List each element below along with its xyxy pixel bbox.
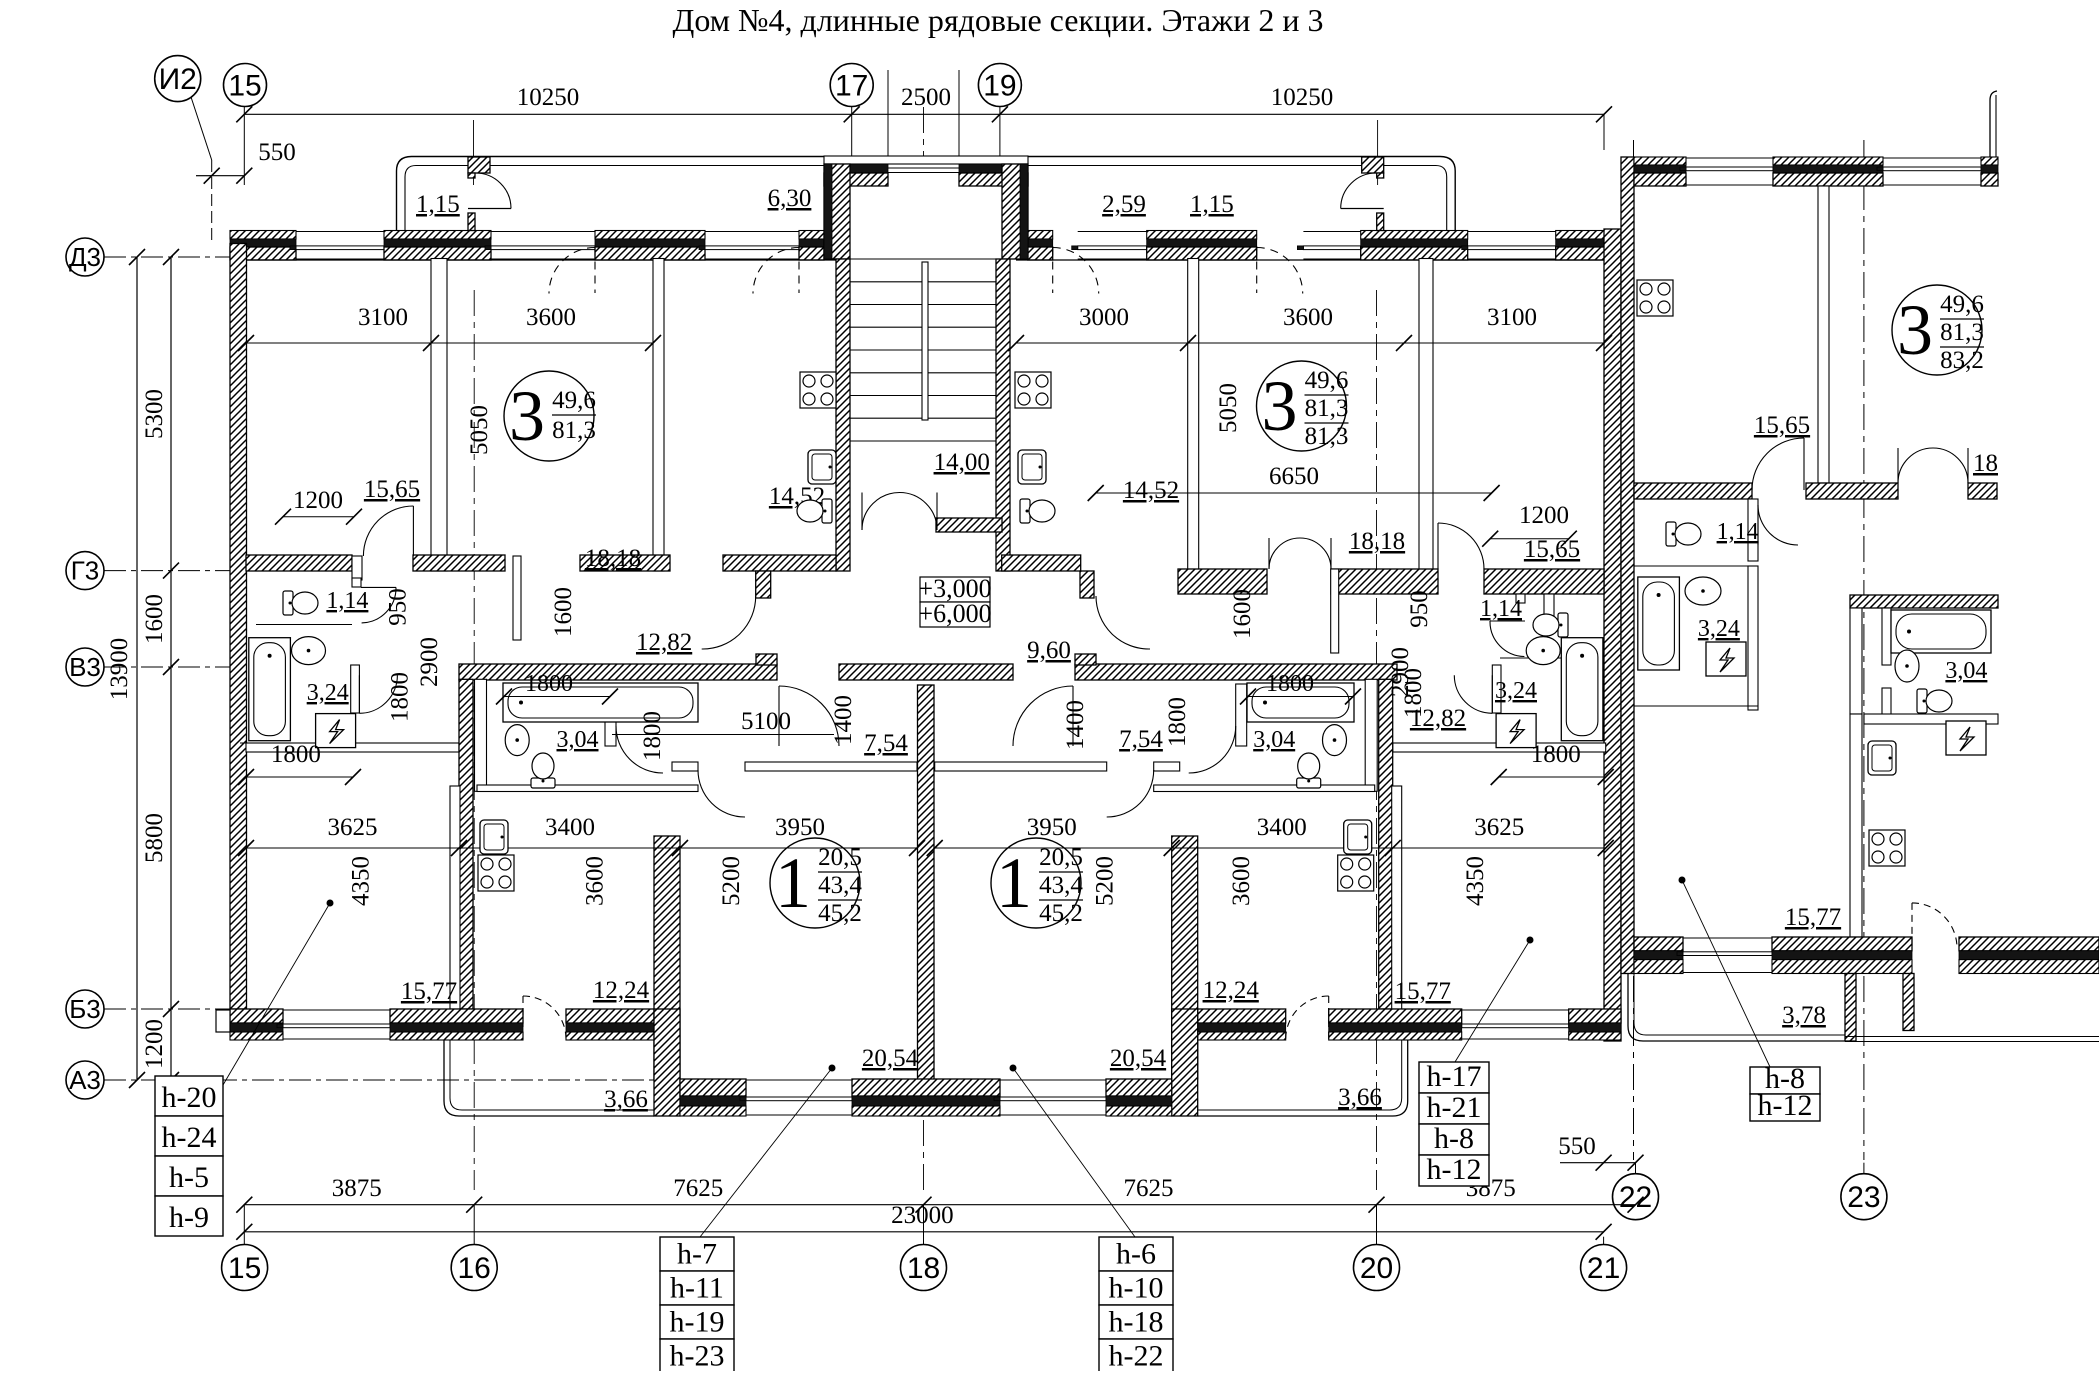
right sec pier a xyxy=(1634,157,1686,165)
right sec bottom pier b xyxy=(1772,937,1912,951)
toilet xyxy=(283,591,318,615)
svg-text:h-20: h-20 xyxy=(162,1081,217,1114)
wall pier D3 b xyxy=(384,231,491,240)
svg-text:h-11: h-11 xyxy=(670,1272,724,1305)
bath tub xyxy=(1891,610,1991,653)
kitchen sink xyxy=(480,820,508,854)
balcony door dashed arc right 1 xyxy=(1053,248,1099,294)
left exterior wall xyxy=(230,244,247,1010)
step wall left xyxy=(654,1009,680,1116)
svg-text:18: 18 xyxy=(907,1252,940,1285)
svg-text:1,14: 1,14 xyxy=(1480,596,1522,622)
double door arcs right apartment xyxy=(1269,538,1300,569)
svg-text:13900: 13900 xyxy=(106,638,133,701)
svg-text:1: 1 xyxy=(996,843,1032,923)
svg-text:3600: 3600 xyxy=(1283,304,1333,331)
B3 pier e xyxy=(1569,1009,1621,1023)
svg-text:1600: 1600 xyxy=(141,594,168,644)
svg-text:3,24: 3,24 xyxy=(307,680,349,706)
leader h-6 xyxy=(1013,1068,1135,1237)
A3 pier c xyxy=(1106,1079,1172,1096)
axis circle 17 top xyxy=(830,64,873,107)
axis dash line 18 xyxy=(923,107,925,156)
right balcony wall xyxy=(1845,974,1856,1042)
window D3 1 xyxy=(296,231,384,233)
balcony door dashed arc left 2 xyxy=(753,248,799,294)
right section door arc 15,65 xyxy=(1752,438,1804,490)
right sec bottom window 1 xyxy=(1683,937,1772,939)
svg-text:14,52: 14,52 xyxy=(1123,477,1179,504)
corridor door arc 15.65 room left xyxy=(363,506,413,556)
axis circle 15 bottom xyxy=(222,1245,268,1291)
G3 wall segment xyxy=(246,555,352,571)
svg-text:19: 19 xyxy=(983,70,1016,103)
stair landing wall piece xyxy=(936,518,1002,532)
axis circle 19 top xyxy=(978,64,1021,107)
svg-text:3,04: 3,04 xyxy=(1253,727,1295,753)
svg-text:81,3: 81,3 xyxy=(1305,423,1349,450)
wall pier D3 a xyxy=(230,231,296,240)
bath door arc right xyxy=(1454,675,1492,713)
svg-text:12,24: 12,24 xyxy=(1203,977,1260,1004)
svg-text:3600: 3600 xyxy=(1228,856,1255,906)
apartment circle 1 right xyxy=(991,838,1081,928)
G3 wall right b xyxy=(1331,569,1438,594)
G3 wall segment xyxy=(580,555,670,571)
bottom dim 23000 xyxy=(244,1231,1603,1233)
svg-text:22: 22 xyxy=(1619,1181,1652,1214)
wall x450-460 thin xyxy=(450,786,460,1009)
svg-text:1800: 1800 xyxy=(1400,668,1427,718)
WC right walls (mirror) xyxy=(1544,594,1554,620)
stove xyxy=(1015,372,1051,408)
svg-text:43,4: 43,4 xyxy=(1039,872,1083,899)
svg-text:18,18: 18,18 xyxy=(585,545,641,572)
balcony rail right top xyxy=(1028,157,1456,231)
wall slat below G3 left xyxy=(513,556,521,640)
svg-text:5800: 5800 xyxy=(141,813,168,863)
right section bath xyxy=(1748,566,1758,710)
B3 pier f xyxy=(1329,1009,1462,1023)
V3 wall segment xyxy=(839,664,1013,680)
svg-text:h-9: h-9 xyxy=(169,1201,209,1234)
svg-text:18: 18 xyxy=(1973,450,1998,477)
right sec window 1 xyxy=(1686,157,1773,159)
table h-20 xyxy=(155,1076,223,1116)
window D3 2 + balcony door xyxy=(491,231,595,233)
apartment circle 3 right xyxy=(1257,361,1347,451)
svg-text:3: 3 xyxy=(1262,366,1298,446)
svg-text:43,4: 43,4 xyxy=(818,872,862,899)
toilet xyxy=(1020,499,1055,523)
stove xyxy=(478,855,514,891)
left dim chain 13900 xyxy=(136,257,138,1080)
corridor door arc right WC xyxy=(1490,620,1525,622)
axis16 extension line top xyxy=(473,120,475,185)
svg-text:1800: 1800 xyxy=(271,741,321,768)
bottom dim 3875/7625/7625/3875 xyxy=(244,1204,1635,1206)
toilet xyxy=(1297,753,1321,788)
wall pier D3 h xyxy=(1556,231,1622,240)
svg-text:h-22: h-22 xyxy=(1109,1340,1164,1371)
svg-text:14,00: 14,00 xyxy=(934,449,990,476)
B3 corner step xyxy=(216,1010,230,1032)
water heater xyxy=(1496,714,1536,748)
A3 pier b xyxy=(852,1079,1000,1096)
svg-text:1200: 1200 xyxy=(141,1019,168,1069)
svg-text:83,2: 83,2 xyxy=(1940,347,1984,374)
svg-text:3625: 3625 xyxy=(328,814,378,841)
corridor arc at right stub xyxy=(1096,596,1150,649)
svg-text:1400: 1400 xyxy=(830,695,857,745)
svg-text:15,65: 15,65 xyxy=(364,476,420,503)
svg-text:3950: 3950 xyxy=(775,814,825,841)
B3 pier d xyxy=(1198,1009,1286,1023)
svg-text:3600: 3600 xyxy=(526,304,576,331)
svg-text:3400: 3400 xyxy=(545,814,595,841)
svg-text:Дом №4, длинные рядовые секции: Дом №4, длинные рядовые секции. Этажи 2 … xyxy=(673,2,1324,38)
B3 window 1 xyxy=(283,1009,390,1011)
core right: walls (mirror) xyxy=(1365,679,1377,791)
svg-text:15,77: 15,77 xyxy=(401,978,457,1005)
wall pier D3 c xyxy=(595,231,705,240)
right section inner wall x1850 down xyxy=(1850,714,1862,937)
kitchen sink xyxy=(808,450,836,484)
B3 pier a xyxy=(230,1009,283,1023)
right sec pier c xyxy=(1981,157,1998,165)
svg-text:h-6: h-6 xyxy=(1116,1238,1156,1271)
svg-text:h-12: h-12 xyxy=(1427,1153,1482,1186)
apartment circle 3 left xyxy=(504,371,594,461)
WC left walls xyxy=(352,556,362,580)
svg-text:А3: А3 xyxy=(69,1065,101,1095)
axis circle D3 xyxy=(66,238,104,276)
wall stub right of balcony xyxy=(1903,974,1914,1031)
kitchen sink xyxy=(1018,450,1046,484)
axis circle I2 xyxy=(155,56,201,102)
B3 pier c xyxy=(566,1009,654,1023)
right sec pier b xyxy=(1773,157,1883,165)
svg-text:3,78: 3,78 xyxy=(1782,1002,1826,1029)
toilet xyxy=(1666,522,1701,546)
svg-text:1800: 1800 xyxy=(387,672,414,722)
svg-text:3,66: 3,66 xyxy=(1338,1084,1382,1111)
A3 window 1 xyxy=(746,1079,852,1081)
svg-text:7625: 7625 xyxy=(673,1175,723,1202)
svg-text:17: 17 xyxy=(835,70,868,103)
axis circle G3 xyxy=(66,552,104,590)
svg-text:15,65: 15,65 xyxy=(1524,536,1580,563)
svg-text:h-18: h-18 xyxy=(1109,1306,1164,1339)
svg-text:49,6: 49,6 xyxy=(1940,291,1984,318)
svg-text:550: 550 xyxy=(258,139,296,166)
svg-text:Б3: Б3 xyxy=(69,994,101,1024)
svg-text:В3: В3 xyxy=(69,652,101,682)
svg-text:49,6: 49,6 xyxy=(552,387,596,414)
dim 550 top-left xyxy=(212,175,245,177)
balcony rail left top xyxy=(397,157,825,231)
plus level box xyxy=(920,577,990,602)
svg-text:1200: 1200 xyxy=(1519,502,1569,529)
svg-text:15,77: 15,77 xyxy=(1395,978,1451,1005)
A3 pier a xyxy=(680,1079,746,1096)
svg-text:3: 3 xyxy=(1897,290,1933,370)
stair tower left wall xyxy=(824,164,850,259)
svg-text:3,24: 3,24 xyxy=(1698,616,1740,642)
svg-text:3,66: 3,66 xyxy=(604,1086,648,1113)
sink xyxy=(505,725,529,756)
svg-text:h-12: h-12 xyxy=(1758,1089,1813,1122)
stove xyxy=(800,372,836,408)
right sec bottom pier a xyxy=(1634,937,1683,951)
svg-text:Д3: Д3 xyxy=(69,242,101,272)
toilet xyxy=(797,499,832,523)
bath door arc left xyxy=(616,726,663,773)
A3 window 2 xyxy=(1000,1079,1106,1081)
stove xyxy=(1869,830,1905,866)
svg-text:15: 15 xyxy=(228,1252,261,1285)
svg-text:1600: 1600 xyxy=(550,587,577,637)
corridor arc at left stub xyxy=(702,596,756,649)
svg-text:Г3: Г3 xyxy=(71,556,100,586)
top dimension line 10250/2500/10250 xyxy=(244,113,1604,115)
svg-text:5100: 5100 xyxy=(741,708,791,735)
B3 pier b xyxy=(390,1009,523,1023)
balcony partition left (1,15) xyxy=(468,157,490,173)
svg-text:h-21: h-21 xyxy=(1427,1091,1482,1124)
svg-text:1800: 1800 xyxy=(1164,697,1191,747)
G3 wall segment xyxy=(413,555,505,571)
stair entry double door arcs xyxy=(862,493,900,531)
axis circle A3 xyxy=(66,1061,104,1099)
svg-text:5050: 5050 xyxy=(1215,383,1242,433)
axis dash line 22 xyxy=(1633,140,1635,1160)
window D3 4 xyxy=(1078,231,1147,233)
svg-text:+6,000: +6,000 xyxy=(918,599,991,628)
partition wall right x1188 (mirror x653) xyxy=(1188,259,1199,572)
balcony door B3 left dashed arc xyxy=(523,996,566,1039)
axis circle 15 top xyxy=(224,64,267,107)
V3 wall segment xyxy=(459,664,777,680)
G3 wall stub right xyxy=(1080,571,1094,598)
kitchen sink xyxy=(1868,741,1896,775)
svg-text:49,6: 49,6 xyxy=(1305,367,1349,394)
axis circle 22 xyxy=(1613,1174,1659,1220)
axis line I2 xyxy=(191,97,212,160)
table h-6 xyxy=(1099,1237,1173,1271)
partition wall right x1404 (mirror x431) xyxy=(1419,259,1433,572)
svg-text:3625: 3625 xyxy=(1474,814,1524,841)
svg-text:20: 20 xyxy=(1360,1252,1393,1285)
svg-text:81,3: 81,3 xyxy=(552,417,596,444)
svg-text:1200: 1200 xyxy=(293,487,343,514)
stair treads xyxy=(850,281,996,283)
sink xyxy=(1895,650,1919,682)
svg-text:3600: 3600 xyxy=(582,856,609,906)
svg-text:3,24: 3,24 xyxy=(1495,678,1537,704)
right section double arc xyxy=(1898,448,1933,483)
apartment circle 1 left xyxy=(770,838,860,928)
svg-text:1800: 1800 xyxy=(639,711,666,761)
svg-text:2,59: 2,59 xyxy=(1102,191,1146,218)
svg-text:3000: 3000 xyxy=(1079,304,1129,331)
svg-text:3: 3 xyxy=(509,376,545,456)
svg-text:81,3: 81,3 xyxy=(1305,395,1349,422)
toilet xyxy=(1533,613,1568,637)
right sec balcony door dashed xyxy=(1912,903,1957,948)
svg-text:12,82: 12,82 xyxy=(636,629,692,656)
door arc hall-room right xyxy=(1107,770,1154,817)
axis circle 16 bottom xyxy=(451,1245,497,1291)
G3 wall right c xyxy=(1484,569,1604,594)
svg-text:4350: 4350 xyxy=(1462,856,1489,906)
svg-text:1,14: 1,14 xyxy=(326,588,368,614)
svg-text:23000: 23000 xyxy=(891,1202,954,1229)
svg-text:3100: 3100 xyxy=(1487,304,1537,331)
axis dash line 16 xyxy=(473,290,475,1190)
thin line to edge xyxy=(1845,1036,2099,1038)
svg-text:6650: 6650 xyxy=(1269,463,1319,490)
wall mirror right kitchen/room xyxy=(1172,836,1198,1079)
axis circle 23 xyxy=(1841,1174,1887,1220)
wall pier D3 e xyxy=(1028,231,1053,240)
svg-text:1,14: 1,14 xyxy=(1717,519,1759,545)
balcony partition door arc left xyxy=(468,208,511,210)
V3 wall segment xyxy=(1075,664,1397,680)
wall pier D3 f xyxy=(1147,231,1257,240)
svg-text:3875: 3875 xyxy=(332,1175,382,1202)
svg-text:950: 950 xyxy=(385,588,412,626)
sink xyxy=(1526,637,1560,665)
axis circle B3 xyxy=(66,990,104,1028)
svg-text:15: 15 xyxy=(228,70,261,103)
axis dash line 23 xyxy=(1863,140,1865,1160)
wall slat below G3 right xyxy=(1331,569,1339,653)
bath door arc left xyxy=(359,675,397,713)
sink xyxy=(1323,725,1347,756)
axis circle V3 xyxy=(66,648,104,686)
wall x654-680 kitchen/room left xyxy=(654,836,680,1079)
left G3 stub xyxy=(756,571,771,598)
svg-text:1: 1 xyxy=(775,843,811,923)
right section bath2 xyxy=(1850,595,1998,608)
door arc left apartment entry xyxy=(779,686,839,746)
water heater xyxy=(1706,642,1746,676)
bath tub xyxy=(503,683,698,722)
toilet xyxy=(531,753,555,788)
svg-text:h-23: h-23 xyxy=(670,1340,725,1371)
step wall right xyxy=(1172,1009,1198,1116)
partition wall x431 xyxy=(431,259,447,572)
wall pier D3 g xyxy=(1361,231,1468,240)
kitchen sink xyxy=(1344,820,1372,854)
bath tub xyxy=(1247,683,1354,722)
stair stringer xyxy=(922,262,928,420)
core left: walls xyxy=(475,679,487,791)
sink xyxy=(292,637,326,665)
stove xyxy=(1637,280,1673,316)
right sec bottom pier c xyxy=(1959,937,2099,951)
left wall of right section xyxy=(1621,157,1634,974)
apartment circle 3 far right xyxy=(1892,285,1982,375)
svg-text:1400: 1400 xyxy=(1062,700,1089,750)
svg-text:950: 950 xyxy=(1406,590,1433,628)
svg-text:4350: 4350 xyxy=(348,856,375,906)
stair tower right wall xyxy=(1002,164,1028,259)
svg-text:h-8: h-8 xyxy=(1434,1122,1474,1155)
window D3 5 xyxy=(1303,231,1360,233)
svg-text:3950: 3950 xyxy=(1027,814,1077,841)
bath tub xyxy=(1638,577,1680,670)
svg-text:h-5: h-5 xyxy=(169,1161,209,1194)
svg-text:45,2: 45,2 xyxy=(1039,900,1083,927)
right section wall y483 xyxy=(1634,483,1752,499)
svg-text:23: 23 xyxy=(1847,1181,1880,1214)
svg-text:7,54: 7,54 xyxy=(1119,726,1163,753)
bath tub xyxy=(249,638,291,741)
svg-text:10250: 10250 xyxy=(517,84,580,111)
svg-text:И2: И2 xyxy=(159,63,197,96)
entrance door line in tower xyxy=(888,167,959,169)
axis circle 21 bottom xyxy=(1581,1245,1627,1291)
svg-text:6,30: 6,30 xyxy=(768,185,812,212)
axis dash line 20 xyxy=(1376,290,1378,1190)
entrance porch lines xyxy=(887,70,889,156)
stove xyxy=(1338,855,1374,891)
WC door arc right section xyxy=(1758,505,1798,545)
svg-text:7625: 7625 xyxy=(1124,1175,1174,1202)
svg-text:1800: 1800 xyxy=(525,671,573,697)
balcony bottom-left xyxy=(444,1040,654,1116)
svg-text:10250: 10250 xyxy=(1271,84,1334,111)
bath tub xyxy=(1561,638,1603,741)
G3 wall segment right near stair xyxy=(1002,555,1081,571)
dim 550 bottom-right xyxy=(1604,1162,1636,1164)
svg-text:9,60: 9,60 xyxy=(1027,637,1071,664)
svg-text:h-19: h-19 xyxy=(670,1306,725,1339)
right sec window 2 xyxy=(1883,157,1981,159)
balcony door dashed arc left 1 xyxy=(549,248,595,294)
svg-text:3,04: 3,04 xyxy=(1945,658,1987,684)
V3 door jamb right xyxy=(1075,654,1096,665)
window D3 3 + balcony door xyxy=(705,231,799,233)
far right balcony rail xyxy=(1990,91,1997,157)
leader h-7 xyxy=(700,1068,832,1237)
door arc right apartment entry xyxy=(1013,686,1073,746)
svg-text:1800: 1800 xyxy=(1266,671,1314,697)
partition wall x653 xyxy=(653,259,664,572)
svg-text:5200: 5200 xyxy=(718,856,745,906)
svg-text:7,54: 7,54 xyxy=(864,730,908,757)
window D3 6 xyxy=(1468,231,1556,233)
svg-text:550: 550 xyxy=(1558,1133,1596,1160)
svg-text:3400: 3400 xyxy=(1257,814,1307,841)
leader h-17 xyxy=(1455,940,1530,1062)
svg-text:2900: 2900 xyxy=(416,637,443,687)
right section partition x1818 xyxy=(1818,186,1829,483)
svg-text:20,54: 20,54 xyxy=(862,1045,919,1072)
wall pier D3 d xyxy=(799,231,824,240)
svg-text:20,54: 20,54 xyxy=(1110,1045,1167,1072)
svg-text:12,24: 12,24 xyxy=(593,977,650,1004)
sink xyxy=(1685,577,1721,605)
svg-text:15,65: 15,65 xyxy=(1754,412,1810,439)
balcony partition door arc right xyxy=(1341,208,1384,210)
G3 wall segment xyxy=(723,555,836,571)
table h-8 right xyxy=(1750,1067,1820,1094)
B3 window 2 xyxy=(1462,1009,1569,1011)
right section WC walls xyxy=(1748,499,1758,561)
